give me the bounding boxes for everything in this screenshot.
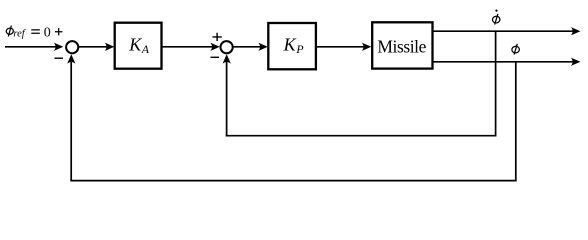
- controller block KP: [268, 23, 316, 69]
- wire outer feedback bottom horizontal: [70, 180, 516, 182]
- arrowhead into summing junction 2: [210, 43, 220, 51]
- summing junction 2: [221, 41, 233, 53]
- arrowhead into Missile: [362, 43, 372, 51]
- wire KP to Missile: [316, 46, 365, 48]
- wire bottom output (phi): [433, 61, 575, 63]
- summing junction 1: [66, 41, 78, 53]
- wire inner feedback rise to junction 2: [226, 62, 228, 137]
- wire top output (phi-dot): [433, 30, 575, 32]
- arrowhead up into junction 2: [223, 54, 231, 64]
- wire junction1 to KA: [79, 46, 108, 48]
- svg-text:0: 0: [44, 26, 51, 41]
- wire outer feedback rise to junction 1: [70, 62, 72, 181]
- node phi_ref input label: [6, 26, 63, 41]
- plus sign at junction 2: [212, 33, 221, 41]
- arrowhead up into junction 1: [67, 54, 75, 64]
- node label phi: [511, 44, 519, 55]
- node label phi-dot: [492, 9, 500, 24]
- wire inner feedback vertical drop from phi-dot line: [495, 31, 497, 136]
- minus sign at junction 1: [54, 57, 63, 59]
- minus sign at junction 2: [211, 56, 220, 58]
- wire junction2 to KP: [234, 46, 262, 48]
- wire KA to junction 2: [162, 46, 214, 48]
- arrowhead into summing junction 1: [54, 43, 64, 51]
- wire outer feedback vertical drop from phi line: [515, 62, 517, 182]
- amplifier block KA: [115, 23, 162, 69]
- arrowhead into KA: [105, 43, 115, 51]
- wire inner feedback bottom horizontal: [226, 135, 497, 137]
- svg-text:Missile: Missile: [377, 37, 426, 57]
- wire input line: [5, 46, 57, 48]
- arrowhead top output: [571, 27, 581, 35]
- plant block Missile: [372, 22, 432, 68]
- arrowhead into KP: [258, 43, 268, 51]
- arrowhead bottom output: [571, 58, 581, 66]
